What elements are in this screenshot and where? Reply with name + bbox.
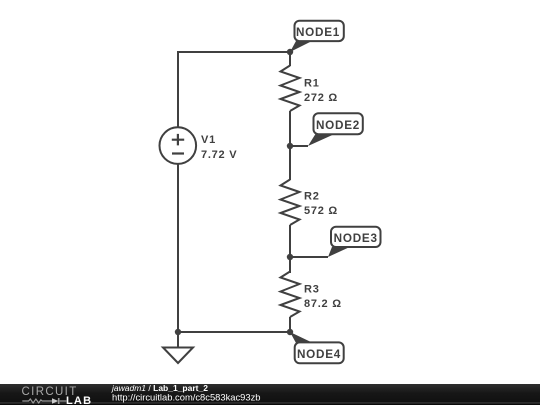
resistor R2 <box>281 180 300 226</box>
node NODE2 box <box>314 113 363 134</box>
footer bar <box>0 384 540 405</box>
wire node3 to R3 <box>289 257 291 273</box>
resistor R1 <box>281 66 300 112</box>
svg-text:87.2 Ω: 87.2 Ω <box>304 298 342 310</box>
svg-text:V1: V1 <box>201 134 216 146</box>
node NODE4 box <box>295 342 344 363</box>
node NODE1 box <box>295 21 344 41</box>
svg-text:R3: R3 <box>304 284 320 296</box>
junction node3 dot <box>287 254 293 260</box>
svg-text:NODE4: NODE4 <box>297 348 341 361</box>
wire R3 to bottom <box>289 317 291 332</box>
node NODE1 pointer <box>290 41 312 52</box>
svg-text:NODE1: NODE1 <box>296 26 340 39</box>
svg-text:R1: R1 <box>304 77 320 89</box>
svg-text:NODE2: NODE2 <box>316 119 360 132</box>
wire top horizontal <box>178 52 290 127</box>
logo resistor squiggle <box>22 399 66 403</box>
svg-text:572 Ω: 572 Ω <box>304 205 338 217</box>
junction ground dot <box>175 329 181 335</box>
wire node2 to R2 <box>289 146 291 180</box>
wire R2 to node3 <box>289 225 291 257</box>
resistor R3 <box>281 272 300 318</box>
V1 plus sign <box>172 134 184 146</box>
junction node1 dot <box>287 49 293 55</box>
logo diode <box>52 398 58 404</box>
wire node3 stub <box>290 256 328 258</box>
wire left lower <box>177 165 179 333</box>
junction node2 dot <box>287 143 293 149</box>
V1 minus sign <box>172 152 184 154</box>
footer separator line <box>0 402 540 403</box>
svg-text:272 Ω: 272 Ω <box>304 92 338 104</box>
svg-text:R2: R2 <box>304 190 320 202</box>
junction node4 dot <box>287 329 293 335</box>
svg-text:LAB: LAB <box>66 395 92 405</box>
node NODE3 pointer <box>328 247 350 257</box>
voltage source V1 circle <box>160 127 197 164</box>
ground <box>163 332 193 363</box>
svg-text:7.72 V: 7.72 V <box>201 149 237 161</box>
wire right upper stub <box>289 52 291 66</box>
wire bottom horizontal <box>178 331 290 333</box>
node NODE2 pointer <box>308 134 334 146</box>
svg-text:http://circuitlab.com/c8c583ka: http://circuitlab.com/c8c583kac93zb <box>112 391 261 402</box>
node NODE4 pointer <box>290 332 313 343</box>
wire R1 to node2 <box>289 111 291 146</box>
node NODE3 box <box>331 227 381 247</box>
svg-text:NODE3: NODE3 <box>334 232 378 245</box>
wire node2 stub <box>290 145 308 147</box>
